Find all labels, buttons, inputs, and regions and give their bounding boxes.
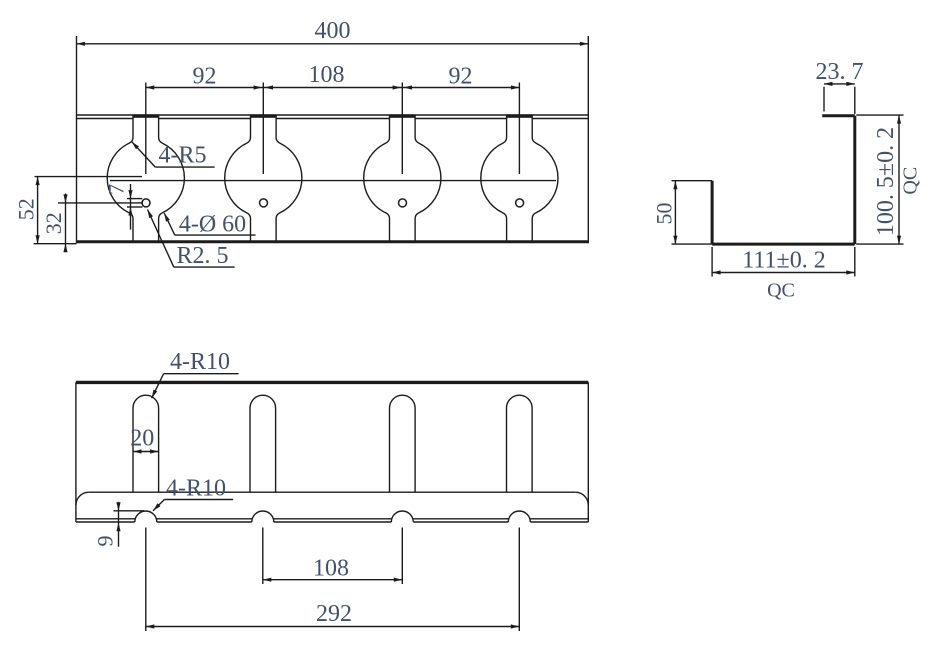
- svg-text:23. 7: 23. 7: [816, 59, 864, 85]
- svg-text:4-R5: 4-R5: [159, 143, 207, 169]
- svg-text:QC: QC: [900, 167, 922, 195]
- svg-text:QC: QC: [767, 280, 795, 302]
- svg-text:4-Ø 60: 4-Ø 60: [179, 211, 246, 237]
- svg-text:92: 92: [193, 63, 217, 89]
- svg-text:9: 9: [92, 536, 117, 547]
- svg-text:20: 20: [130, 426, 154, 452]
- svg-text:292: 292: [316, 601, 352, 627]
- svg-text:400: 400: [315, 18, 351, 44]
- svg-text:50: 50: [651, 203, 676, 225]
- svg-text:100. 5±0. 2: 100. 5±0. 2: [873, 127, 899, 236]
- svg-text:4-R10: 4-R10: [170, 349, 230, 375]
- svg-text:7: 7: [104, 184, 129, 195]
- svg-text:108: 108: [309, 62, 345, 88]
- svg-text:111±0. 2: 111±0. 2: [742, 247, 825, 273]
- svg-text:R2. 5: R2. 5: [176, 243, 228, 269]
- svg-text:32: 32: [41, 212, 66, 234]
- svg-text:4-R10: 4-R10: [166, 475, 226, 501]
- svg-text:52: 52: [13, 198, 38, 220]
- svg-text:108: 108: [313, 555, 349, 581]
- svg-text:92: 92: [449, 63, 473, 89]
